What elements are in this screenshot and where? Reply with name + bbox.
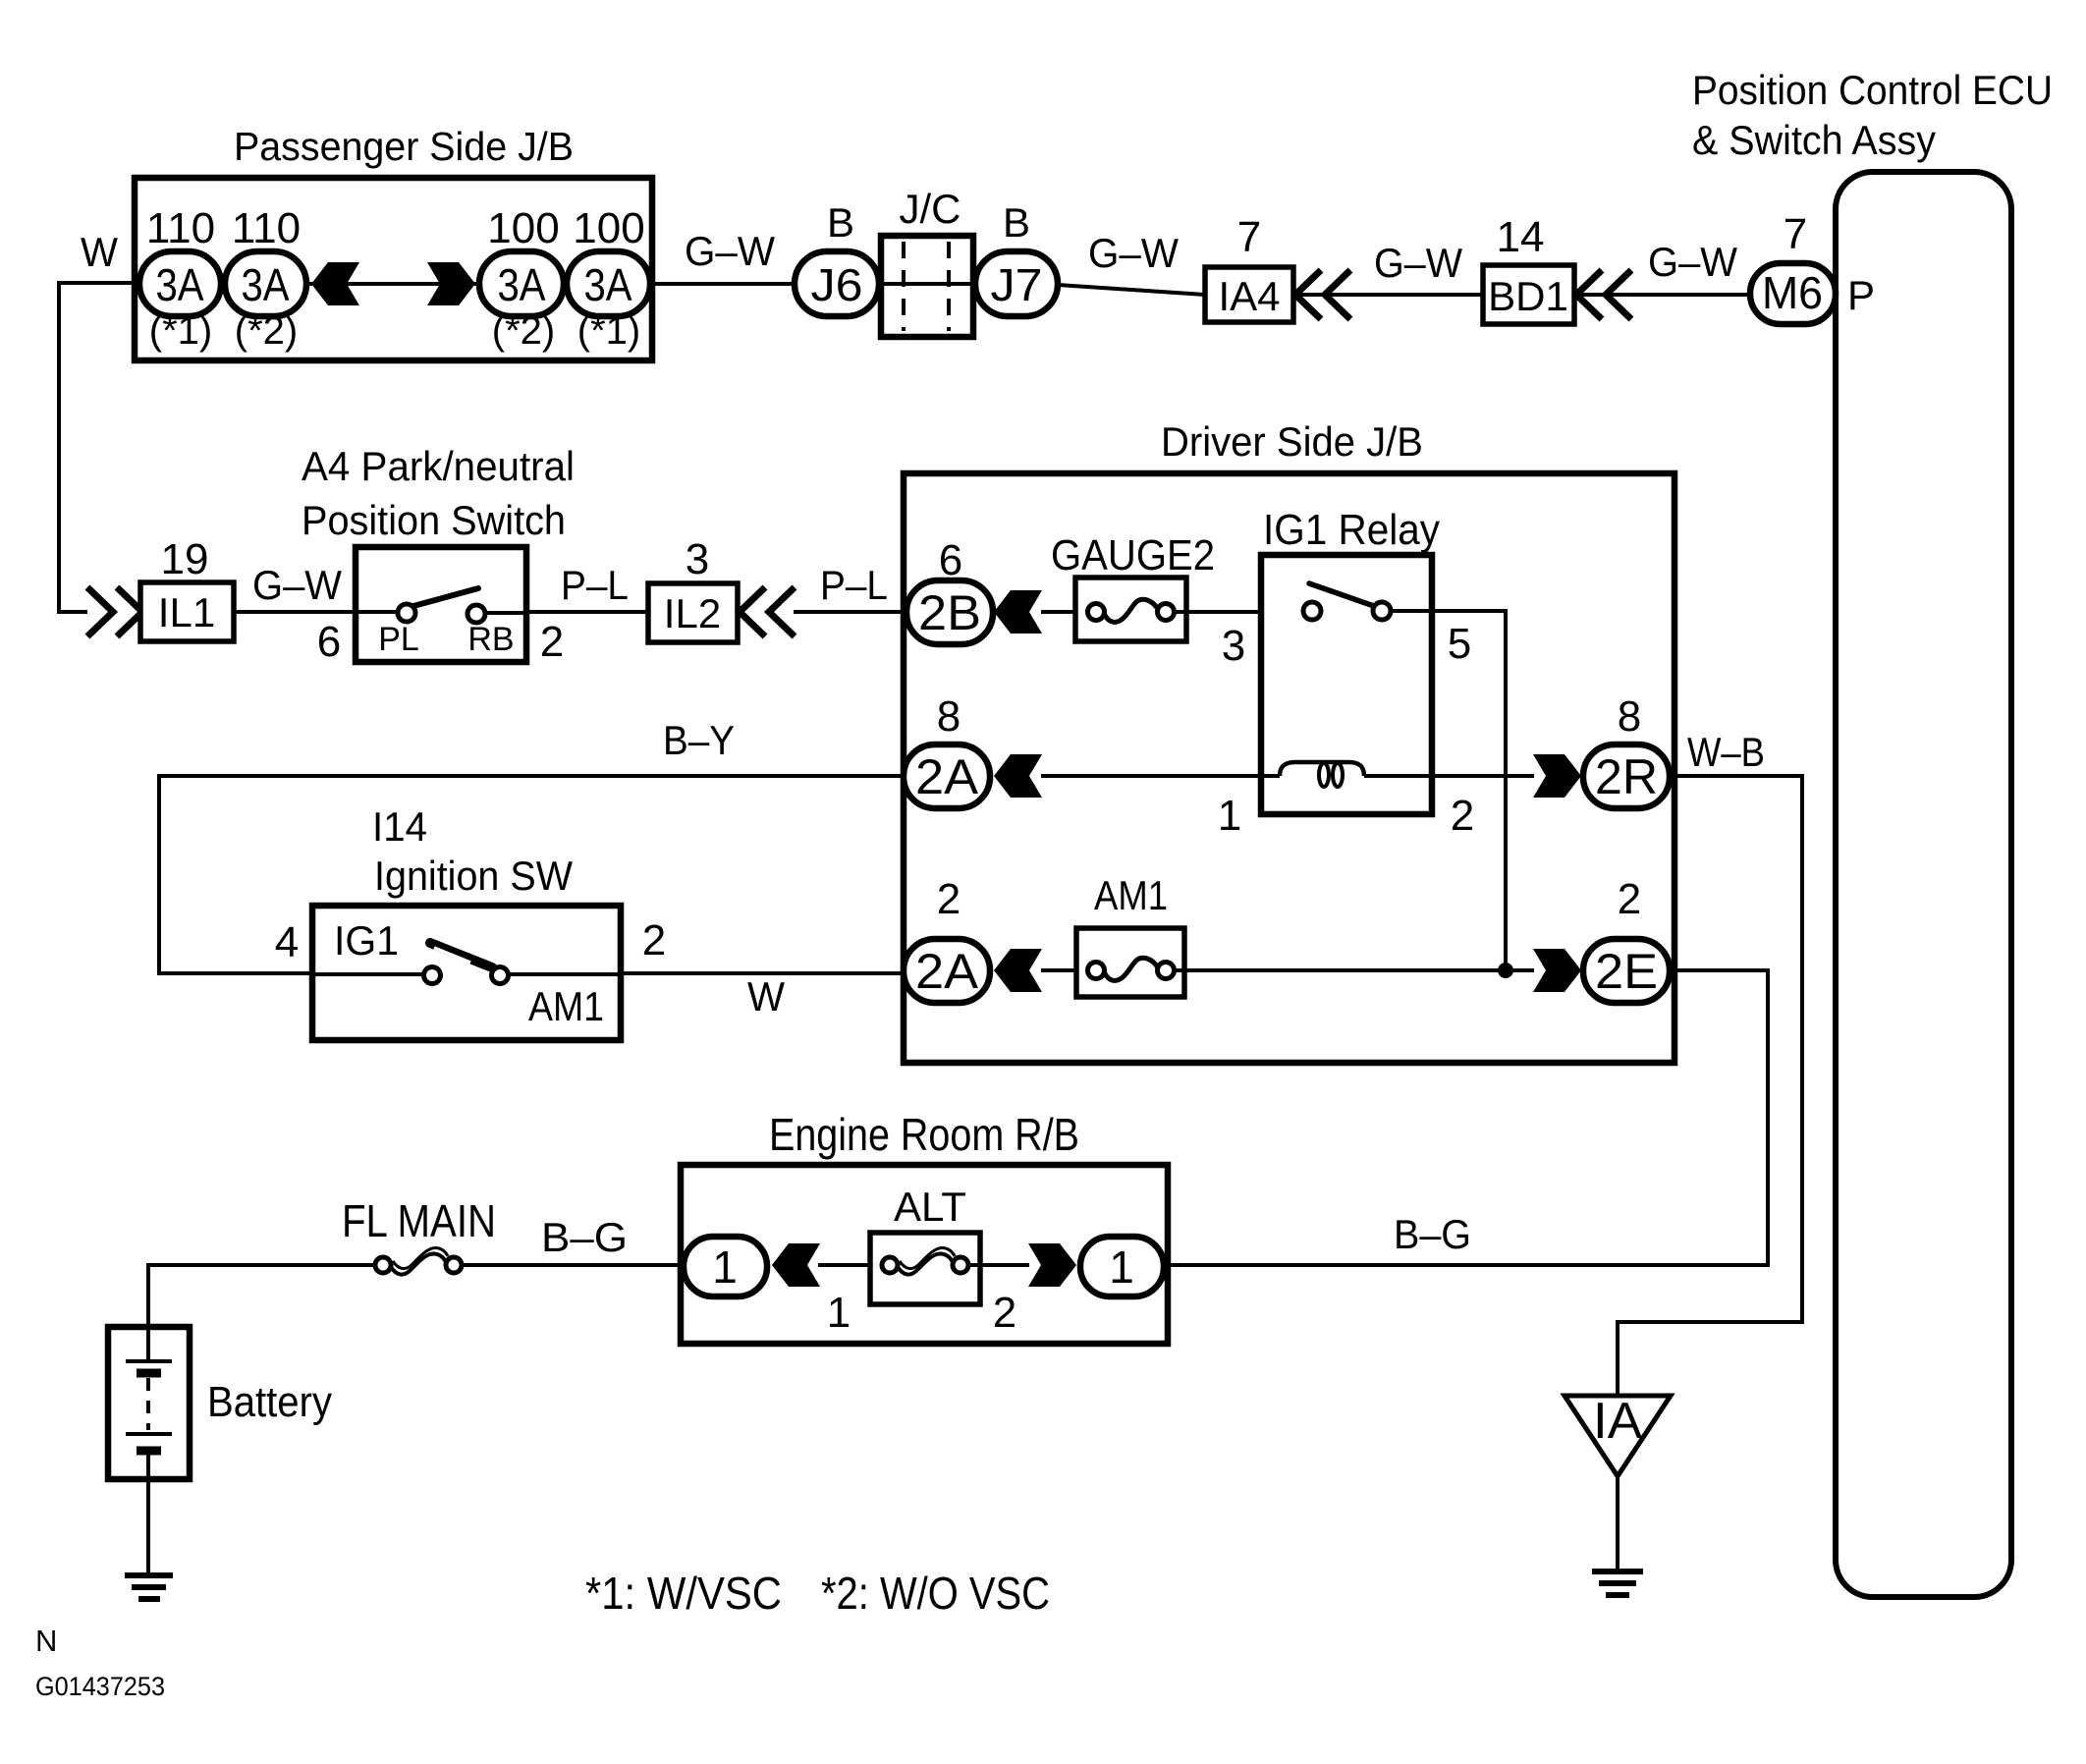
connector 2E pin 2 xyxy=(1583,939,1670,1003)
svg-text:2A: 2A xyxy=(915,944,979,999)
pin number 7 xyxy=(1784,210,1807,258)
ignition switch box xyxy=(312,906,621,1040)
label J/C xyxy=(900,186,961,232)
connector arrow right xyxy=(1028,1243,1076,1287)
wire G-W from IL1 to park/neutral switch xyxy=(234,610,356,614)
relay coil pin 1 xyxy=(1218,792,1241,840)
connector IA4 pin 7 xyxy=(1205,267,1293,322)
connector arrow left xyxy=(311,262,359,305)
svg-text:Position Control ECU: Position Control ECU xyxy=(1692,67,2053,113)
svg-text:2: 2 xyxy=(937,875,961,923)
svg-text:2E: 2E xyxy=(1595,944,1658,999)
svg-text:G–W: G–W xyxy=(1374,240,1462,286)
pin number 100 xyxy=(573,204,644,252)
svg-text:Driver Side J/B: Driver Side J/B xyxy=(1161,418,1423,465)
connector arrow left xyxy=(772,1243,820,1287)
svg-text:IA: IA xyxy=(1593,1393,1642,1450)
pin number 2 xyxy=(642,916,666,965)
label IG1 xyxy=(334,917,399,964)
label N xyxy=(35,1624,57,1658)
svg-text:PL: PL xyxy=(378,621,419,658)
svg-text:IG1: IG1 xyxy=(334,917,399,964)
label I14 Ignition SW xyxy=(372,803,573,899)
svg-text:3: 3 xyxy=(686,535,709,583)
label Passenger Side J/B xyxy=(234,124,574,169)
svg-text:IA4: IA4 xyxy=(1218,273,1280,319)
pin number 3 xyxy=(1222,622,1245,670)
wire battery to FL MAIN xyxy=(148,1265,375,1327)
svg-text:19: 19 xyxy=(161,535,209,583)
pin number 7 xyxy=(1237,213,1261,261)
svg-text:G–W: G–W xyxy=(685,228,775,274)
connector J6 xyxy=(795,251,879,316)
connector 3A (*1) pin 110 xyxy=(139,251,221,316)
pin number 1 xyxy=(827,1289,851,1337)
note *1 / *2 xyxy=(585,1568,1050,1619)
connector J7 xyxy=(975,251,1058,316)
svg-text:2: 2 xyxy=(642,916,666,965)
svg-text:P–L: P–L xyxy=(820,562,888,608)
wire G-W from IA4 to BD1 xyxy=(1293,293,1483,297)
connector 2B pin 6 xyxy=(906,580,993,644)
svg-text:4: 4 xyxy=(275,918,299,966)
label GAUGE2 xyxy=(1051,531,1215,579)
svg-text:AM1: AM1 xyxy=(1094,872,1168,918)
svg-text:W: W xyxy=(747,973,785,1020)
label Engine Room R/B xyxy=(769,1109,1079,1160)
pin label P xyxy=(1847,272,1875,318)
connector arrow right xyxy=(427,262,475,305)
svg-text:(*2): (*2) xyxy=(235,309,298,353)
connector 2A pin 8 xyxy=(904,744,990,808)
wire G-W from J/B to J6 xyxy=(650,282,795,286)
svg-text:P–L: P–L xyxy=(561,562,629,608)
pin number 5 xyxy=(1448,620,1471,668)
connector 3A (*2) pin 100 xyxy=(479,251,564,316)
pin number 14 xyxy=(1497,213,1545,261)
note (*2) xyxy=(492,309,555,353)
svg-text:G–W: G–W xyxy=(252,562,342,608)
wire B-G from 2E to engine room R/B xyxy=(1168,970,1768,1265)
svg-text:8: 8 xyxy=(937,692,961,741)
pin number 2 xyxy=(540,618,564,666)
ground IA xyxy=(1592,1571,1643,1595)
Position Control ECU box xyxy=(1836,172,2011,1597)
pin number 19 xyxy=(161,535,209,583)
svg-text:5: 5 xyxy=(1448,620,1471,668)
ignition contact left xyxy=(312,967,441,984)
svg-text:*1: W/VSC: *1: W/VSC xyxy=(585,1568,782,1619)
svg-text:2: 2 xyxy=(540,618,564,666)
label G-W xyxy=(1374,240,1462,286)
switch contact RB xyxy=(467,605,526,658)
svg-text:6: 6 xyxy=(317,618,341,666)
svg-text:J6: J6 xyxy=(811,259,863,310)
svg-text:2: 2 xyxy=(1618,875,1641,923)
svg-text:G–W: G–W xyxy=(1648,239,1737,285)
svg-text:Ignition SW: Ignition SW xyxy=(374,853,573,899)
label W wire color xyxy=(81,229,118,275)
label G-W xyxy=(1088,230,1179,276)
connector arrow at 2A pin 2 xyxy=(994,949,1042,992)
pin number 3 xyxy=(686,535,709,583)
svg-text:1: 1 xyxy=(1109,1241,1134,1293)
wire 2A to AM1 fuse xyxy=(1041,968,1087,972)
junction dot xyxy=(1498,963,1513,978)
label AM1 xyxy=(1094,872,1168,918)
pin number 2 xyxy=(937,875,961,923)
label W xyxy=(747,973,785,1020)
connector M6 pin 7 xyxy=(1750,263,1836,324)
label B wire color xyxy=(827,199,854,246)
label W-B xyxy=(1687,729,1765,775)
fusible link FL MAIN xyxy=(375,1247,462,1274)
svg-text:W: W xyxy=(81,229,118,275)
connector 2R pin 8 xyxy=(1583,744,1670,808)
svg-text:6: 6 xyxy=(939,536,962,584)
label ALT xyxy=(894,1184,966,1230)
park/neutral position switch box xyxy=(356,547,526,662)
pin number 2 xyxy=(993,1289,1016,1337)
svg-text:(*1): (*1) xyxy=(149,309,212,353)
svg-text:100: 100 xyxy=(487,204,559,252)
wire through relay coil row xyxy=(1041,774,1534,778)
svg-text:7: 7 xyxy=(1784,210,1807,258)
Driver Side J/B box xyxy=(904,473,1674,1063)
svg-text:110: 110 xyxy=(232,204,301,252)
svg-text:7: 7 xyxy=(1237,213,1261,261)
svg-text:2B: 2B xyxy=(918,585,981,640)
Engine Room R/B box xyxy=(681,1165,1168,1344)
svg-text:100: 100 xyxy=(573,204,644,252)
connector 1 right xyxy=(1080,1237,1164,1296)
connector BD1 pin 14 xyxy=(1483,265,1574,324)
svg-text:Position Switch: Position Switch xyxy=(302,497,566,543)
pin number 4 xyxy=(275,918,299,966)
label G-W xyxy=(252,562,342,608)
figure number G01437253 xyxy=(35,1672,165,1701)
label Driver Side J/B xyxy=(1161,418,1423,465)
svg-text:N: N xyxy=(35,1624,57,1658)
label B-G xyxy=(1394,1211,1471,1257)
connector 3A (*1) pin 100 xyxy=(567,251,650,316)
svg-text:2R: 2R xyxy=(1595,749,1658,804)
svg-text:1: 1 xyxy=(1218,792,1241,840)
svg-text:3: 3 xyxy=(1222,622,1245,670)
wire to ALT fuse xyxy=(818,1263,882,1267)
label B-Y xyxy=(663,717,735,763)
ignition contact right xyxy=(492,967,622,984)
wire 2B to GAUGE2 fuse xyxy=(1041,610,1087,614)
ignition key lever xyxy=(430,943,492,967)
svg-text:AM1: AM1 xyxy=(528,983,604,1029)
double chevron toward IL1 xyxy=(87,587,142,636)
svg-text:14: 14 xyxy=(1497,213,1545,261)
double chevron toward BD1 xyxy=(1576,270,1631,319)
wire relay pin 5 to 2E junction xyxy=(1391,611,1506,970)
connector arrow at 2R xyxy=(1533,754,1581,798)
connector IL2 pin 3 xyxy=(648,583,738,642)
svg-text:2: 2 xyxy=(993,1289,1016,1337)
svg-text:& Switch Assy: & Switch Assy xyxy=(1692,117,1936,163)
battery ground xyxy=(125,1479,173,1599)
switch contact PL xyxy=(356,604,419,658)
note (*1) xyxy=(149,309,212,353)
svg-text:P: P xyxy=(1847,272,1875,318)
wire B-Y from ignition loop to 2A xyxy=(159,776,904,973)
svg-text:J7: J7 xyxy=(991,259,1043,310)
pin number 6 xyxy=(939,536,962,584)
svg-text:B–G: B–G xyxy=(1394,1211,1471,1257)
wire AM1 fuse to 2E xyxy=(1175,968,1534,972)
note (*2) xyxy=(235,309,298,353)
connector 1 left xyxy=(684,1237,767,1296)
label G-W xyxy=(1648,239,1737,285)
wire W from ignition to 2A xyxy=(621,971,904,975)
wire GAUGE2 to IG1 relay pin 3 xyxy=(1175,610,1303,614)
relay contact left xyxy=(1303,602,1321,620)
svg-text:2A: 2A xyxy=(915,749,979,804)
label P-L xyxy=(820,562,888,608)
svg-text:110: 110 xyxy=(146,204,215,252)
svg-text:B–Y: B–Y xyxy=(663,717,735,763)
svg-text:3A: 3A xyxy=(156,259,204,310)
label G-W xyxy=(685,228,775,274)
svg-text:RB: RB xyxy=(467,621,514,658)
pin number 8 xyxy=(1618,692,1641,741)
svg-text:J/C: J/C xyxy=(900,186,961,232)
svg-text:A4 Park/neutral: A4 Park/neutral xyxy=(302,443,575,489)
pin number 100 xyxy=(487,204,559,252)
svg-text:3A: 3A xyxy=(584,259,632,310)
label B wire color xyxy=(1003,199,1030,246)
switch lever xyxy=(413,588,478,606)
connector 2A pin 2 xyxy=(904,939,990,1003)
svg-text:2: 2 xyxy=(1451,792,1474,840)
wire P-L from IL2 to driver side J/B xyxy=(794,610,906,614)
wire W from passenger J/B down-left to IL1 xyxy=(59,283,139,612)
fuse ALT xyxy=(870,1233,980,1304)
wire B-G from FL MAIN to engine room R/B xyxy=(462,1263,684,1267)
connector arrow at 2E xyxy=(1533,949,1581,992)
svg-text:I14: I14 xyxy=(372,803,427,850)
wire ALT to connector xyxy=(968,1263,1029,1267)
connector arrow at 2A pin 8 xyxy=(994,754,1042,798)
Passenger Side J/B box xyxy=(135,178,652,360)
fuse AM1 xyxy=(1076,928,1184,997)
double chevron toward IL2 xyxy=(740,587,795,636)
svg-text:Passenger Side J/B: Passenger Side J/B xyxy=(234,124,574,169)
svg-text:IL1: IL1 xyxy=(158,589,215,635)
battery xyxy=(108,1327,190,1479)
fuse GAUGE2 xyxy=(1075,578,1186,641)
svg-text:3A: 3A xyxy=(498,259,546,310)
svg-text:Engine Room R/B: Engine Room R/B xyxy=(769,1109,1079,1160)
junction connector J/C box xyxy=(879,236,975,337)
svg-text:BD1: BD1 xyxy=(1488,273,1568,319)
pin number 8 xyxy=(937,692,961,741)
relay switch lever xyxy=(1309,583,1374,606)
label A4 Park/neutral Position Switch xyxy=(302,443,575,543)
svg-text:IG1 Relay: IG1 Relay xyxy=(1263,506,1440,554)
svg-text:3A: 3A xyxy=(242,259,290,310)
svg-text:G–W: G–W xyxy=(1088,230,1179,276)
svg-text:8: 8 xyxy=(1618,692,1641,741)
svg-text:FL MAIN: FL MAIN xyxy=(342,1195,496,1246)
label Position Control ECU & Switch Assy xyxy=(1692,67,2053,163)
relay contact right xyxy=(1373,602,1391,620)
svg-text:1: 1 xyxy=(827,1289,851,1337)
wire G-W from J7 to IA4 xyxy=(1058,285,1205,295)
label IG1 Relay xyxy=(1263,506,1440,554)
svg-text:M6: M6 xyxy=(1762,267,1823,318)
wire between J/B connectors xyxy=(306,282,478,286)
svg-text:ALT: ALT xyxy=(894,1184,966,1230)
connector 3A (*2) pin 110 xyxy=(225,251,306,316)
connector IL1 pin 19 xyxy=(140,582,234,641)
label FL MAIN xyxy=(342,1195,496,1246)
relay coil xyxy=(1280,762,1364,787)
relay coil pin 2 xyxy=(1451,792,1474,840)
svg-text:Battery: Battery xyxy=(207,1378,332,1426)
connector arrow at 2B xyxy=(994,590,1042,634)
wire G-W from BD1 to M6 xyxy=(1574,293,1750,297)
svg-text:IL2: IL2 xyxy=(664,590,721,636)
pin number 6 xyxy=(317,618,341,666)
label P-L xyxy=(561,562,629,608)
svg-text:GAUGE2: GAUGE2 xyxy=(1051,531,1215,579)
label Battery xyxy=(207,1378,332,1426)
svg-text:B–G: B–G xyxy=(541,1214,628,1260)
svg-text:W–B: W–B xyxy=(1687,729,1765,775)
IG1 Relay box xyxy=(1261,555,1432,814)
pin number 110 xyxy=(232,204,301,252)
noise filter IA xyxy=(1564,1393,1671,1476)
double chevron toward IA4 xyxy=(1295,270,1350,319)
svg-text:(*2): (*2) xyxy=(492,309,555,353)
svg-text:G01437253: G01437253 xyxy=(35,1672,165,1701)
label AM1 inside switch xyxy=(528,983,604,1029)
svg-text:B: B xyxy=(1003,199,1030,246)
pin number 110 xyxy=(146,204,215,252)
svg-text:*2: W/O VSC: *2: W/O VSC xyxy=(821,1568,1050,1619)
pin number 2 xyxy=(1618,875,1641,923)
svg-text:1: 1 xyxy=(712,1241,738,1293)
wire IA to ground xyxy=(1616,1476,1619,1571)
note (*1) xyxy=(577,309,640,353)
svg-text:B: B xyxy=(827,199,854,246)
svg-text:(*1): (*1) xyxy=(577,309,640,353)
wire W-B from 2R to noise filter IA xyxy=(1618,776,1802,1396)
label B-G xyxy=(541,1214,628,1260)
wire P-L from switch to IL2 xyxy=(526,610,648,614)
